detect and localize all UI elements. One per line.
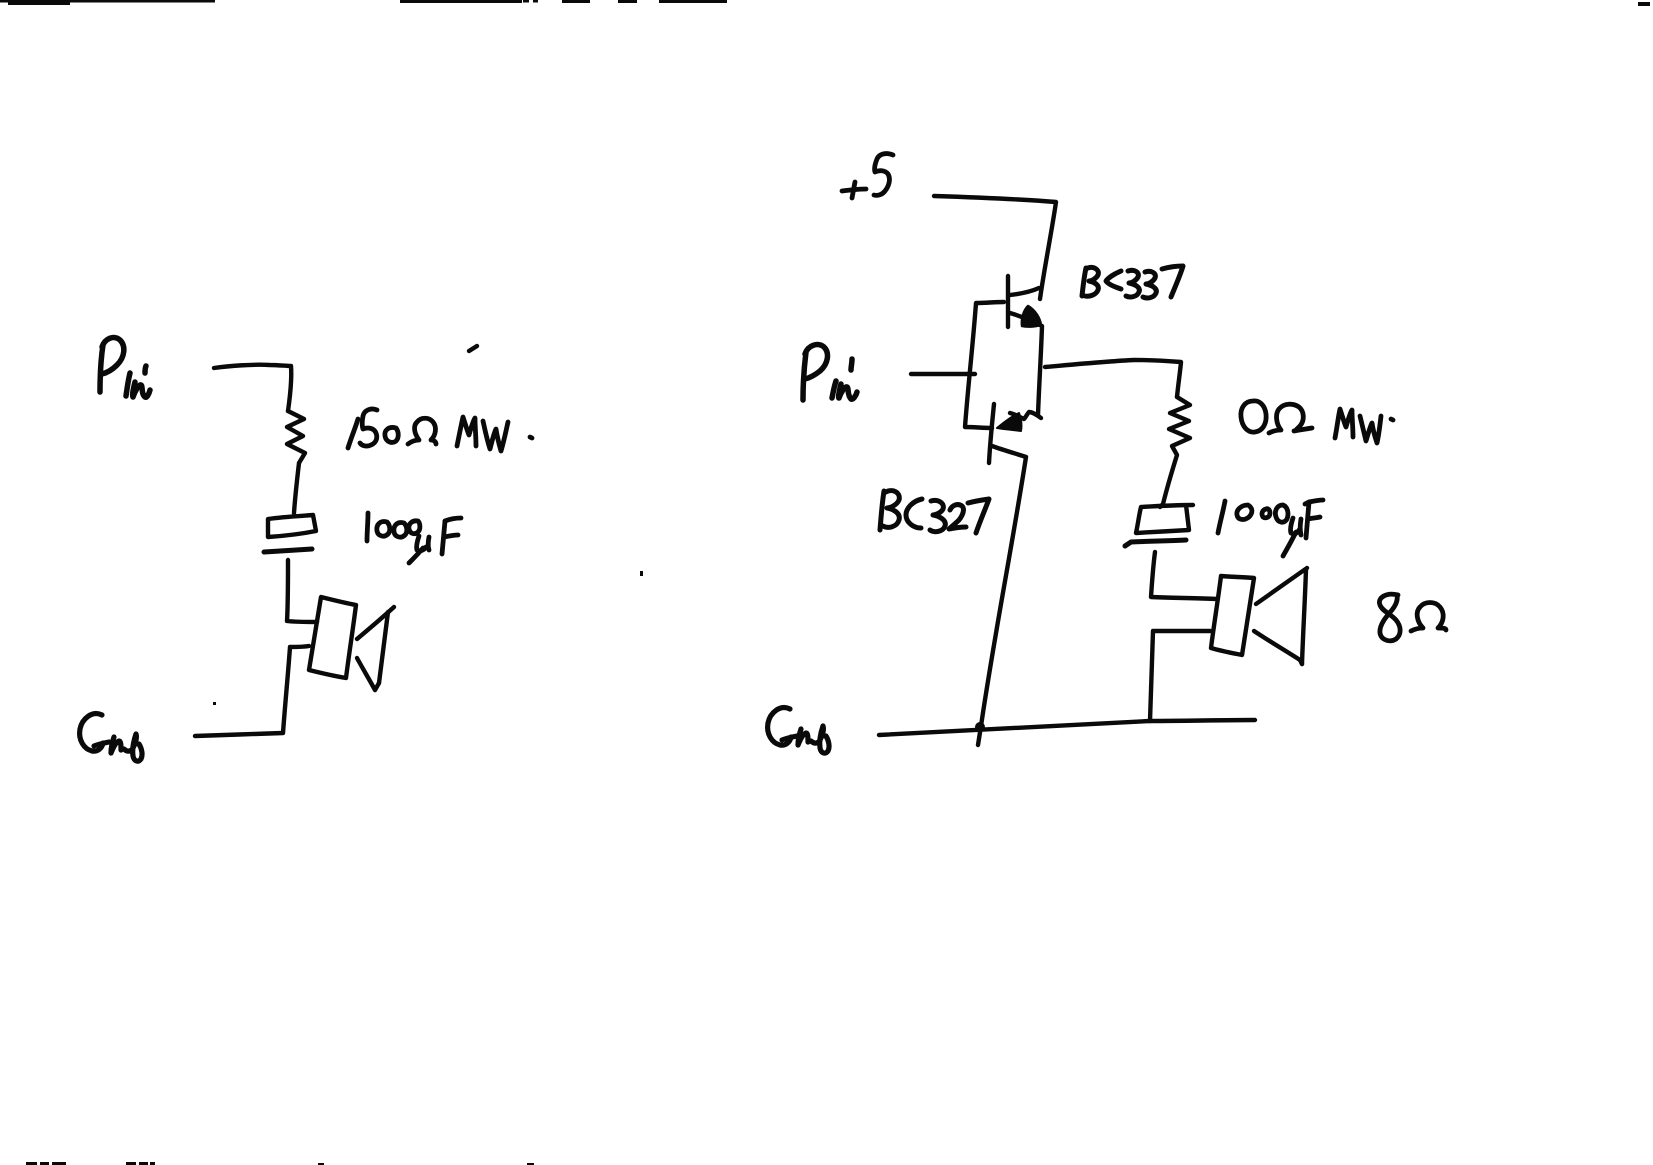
wire speaker to ground (left): [195, 646, 309, 736]
node Pin (left label): [100, 338, 150, 398]
label 0R MW.: [1241, 401, 1393, 443]
wire speaker to ground (right): [1150, 631, 1210, 721]
junction dot: [975, 722, 985, 732]
capacitor 1000uF (left) bottom plate: [264, 549, 312, 552]
wire base rail: [965, 302, 1004, 428]
transistor BC337 emitter arrow: [1022, 306, 1041, 327]
wire ground rail (right): [879, 720, 1255, 735]
ground Gnd (right label): [768, 708, 829, 754]
label 150R MW.: [348, 409, 532, 451]
wire resistor to capacitor (right): [1160, 504, 1163, 507]
transistor BC337 base bar: [1006, 276, 1010, 327]
wire output node to resistor: [1045, 360, 1181, 397]
wire capacitor to speaker (left): [287, 560, 317, 622]
speaker LS1 (left) frame: [309, 597, 356, 678]
node Pin (right label): [803, 345, 857, 400]
wire Pin to bases (right): [911, 372, 975, 376]
wire +5 rail: [934, 196, 1056, 299]
capacitor 1000uF (left) top plate: [268, 515, 316, 537]
transistor BC327 emitter: [1010, 412, 1041, 419]
transistor BC327 base bar: [989, 404, 994, 463]
label BC327: [880, 491, 989, 533]
capacitor 1000uF (right) bottom plate: [1125, 540, 1186, 546]
wire capacitor to speaker (right): [1151, 552, 1217, 599]
label 8R: [1379, 594, 1446, 641]
transistor BC327 collector: [978, 446, 1026, 745]
speaker 8R (right) frame: [1211, 576, 1254, 655]
transistor BC337 emitter: [1010, 313, 1042, 415]
transistor BC337 collector: [1010, 288, 1039, 295]
resistor 150 ohm: [287, 411, 305, 513]
resistor 0 ohm: [1163, 397, 1190, 504]
label BC337: [1082, 266, 1183, 298]
label 1000uF (right): [1218, 500, 1323, 556]
speaker LS1 (left) horn: [357, 607, 394, 639]
capacitor 1000uF (right) top plate: [1136, 505, 1193, 533]
wire Pin to resistor (left): [214, 365, 291, 411]
ground Gnd (left label): [80, 714, 142, 762]
speaker 8R (right) horn: [1256, 568, 1307, 604]
transistor BC327 emitter arrow: [997, 413, 1021, 431]
power +5 label: [842, 154, 893, 198]
tick mark: [469, 346, 477, 351]
label 1000uF (left): [367, 513, 461, 563]
